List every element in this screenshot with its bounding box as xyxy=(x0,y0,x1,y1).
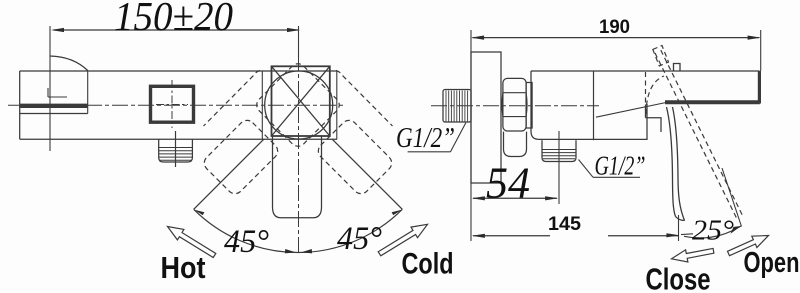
cartridge cap square xyxy=(272,66,330,136)
cartridge circle xyxy=(265,71,333,139)
dimension 145 xyxy=(472,214,693,238)
dashed lever (open) xyxy=(646,46,743,220)
outlet centerline / 54 ext xyxy=(558,131,560,204)
svg-text:Open: Open xyxy=(744,247,800,279)
svg-text:G1/2”: G1/2” xyxy=(595,151,646,181)
cartridge outer section xyxy=(262,71,337,139)
button centerlines xyxy=(156,80,188,128)
Open arrow xyxy=(728,236,769,256)
Cold arrow xyxy=(378,224,427,256)
svg-text:150±20: 150±20 xyxy=(114,0,233,39)
svg-text:G1/2”: G1/2” xyxy=(396,123,455,154)
dimension 54 xyxy=(472,159,558,208)
svg-text:45°: 45° xyxy=(337,221,382,257)
cartridge centerline vertical xyxy=(298,55,300,253)
hex nut xyxy=(502,78,527,131)
under-spout step xyxy=(646,105,662,133)
extension lines xyxy=(470,30,472,241)
handle lever (closed) xyxy=(667,107,685,221)
spout hump arc xyxy=(50,56,88,71)
dimension 150±20 line xyxy=(51,28,300,32)
svg-text:Hot: Hot xyxy=(161,250,206,285)
bracket lobe below nut xyxy=(504,132,527,157)
dimension 190 xyxy=(471,17,761,40)
connector centerline xyxy=(175,131,177,167)
svg-text:Close: Close xyxy=(646,262,711,293)
svg-text:190: 190 xyxy=(599,17,630,38)
spout thick lines xyxy=(665,100,760,104)
25 deg ray xyxy=(722,168,742,227)
45 deg arc xyxy=(194,209,403,252)
body outline xyxy=(20,71,337,139)
threaded pipe xyxy=(443,90,471,123)
svg-text:25°: 25° xyxy=(692,215,734,247)
25 deg arc xyxy=(684,226,741,238)
dashed rotated edge left (inside body) xyxy=(204,71,261,127)
G1/2 label (bottom outlet) xyxy=(579,151,646,181)
handle centerline tick xyxy=(678,215,680,241)
handle (front view) xyxy=(273,136,322,218)
washer xyxy=(526,83,532,129)
wall flange xyxy=(471,52,501,183)
G1/2 label (wall pipe) xyxy=(396,123,466,154)
cap diagonals xyxy=(272,66,330,136)
body centerline horizontal xyxy=(8,104,345,106)
tab on spout top xyxy=(674,64,681,72)
Hot arrow xyxy=(168,227,216,258)
dashed rotated edge right (inside body) xyxy=(336,71,393,127)
spout details xyxy=(20,71,88,114)
right view centerline xyxy=(431,105,599,107)
button square xyxy=(151,86,194,122)
dashed diamond (cap rotated 45) xyxy=(253,60,342,149)
svg-text:54: 54 xyxy=(486,159,530,208)
Close arrow xyxy=(672,248,714,262)
dashed handle rotated right xyxy=(315,117,395,197)
connector under body (left view) xyxy=(159,139,193,162)
svg-text:45°: 45° xyxy=(224,224,269,260)
svg-text:Cold: Cold xyxy=(402,248,454,281)
extension line right (to cartridge) xyxy=(298,26,300,58)
45 deg rays xyxy=(194,139,264,209)
main body xyxy=(531,71,760,140)
dashed handle rotated left xyxy=(201,117,281,197)
extension line left xyxy=(49,26,51,151)
internal diagonal xyxy=(596,103,666,118)
bottom outlet xyxy=(542,140,576,161)
svg-text:145: 145 xyxy=(548,214,581,235)
arc arrowheads xyxy=(194,207,205,216)
